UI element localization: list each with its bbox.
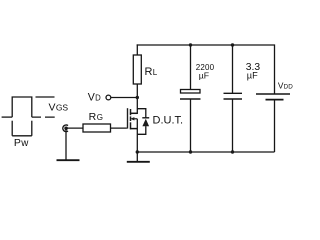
battery VDD negative plate bbox=[266, 99, 284, 101]
junction dot at input terminal bbox=[64, 127, 68, 131]
junction dot bottom rail C2 bbox=[231, 150, 234, 153]
capacitor C1 2200uF positive plate bbox=[181, 90, 201, 94]
wire source to ground bbox=[136, 152, 138, 161]
transistor channel segment body bbox=[130, 116, 132, 121]
body diode branch wires bbox=[137, 109, 146, 135]
transistor channel segment source bbox=[130, 122, 132, 129]
pulse waveform baseline bbox=[2, 116, 13, 118]
wire RG to gate bbox=[111, 127, 127, 129]
wire input terminal to ground bbox=[65, 128, 67, 159]
pulse width bracket bbox=[12, 135, 32, 137]
svg-text:µF: µF bbox=[247, 70, 258, 80]
svg-text:VDD: VDD bbox=[278, 80, 293, 90]
bottom rail wire bbox=[137, 151, 274, 153]
svg-text:VGS: VGS bbox=[49, 101, 69, 113]
body diode cathode bar bbox=[142, 117, 149, 119]
wire top rail to C1 bbox=[190, 45, 192, 90]
junction dot VD tap bbox=[136, 96, 139, 99]
wire C2 to bottom rail bbox=[232, 99, 234, 152]
transistor body arrow bbox=[130, 117, 134, 120]
svg-text:RG: RG bbox=[89, 111, 103, 123]
resistor RG bbox=[83, 124, 111, 132]
wire source column bbox=[136, 119, 138, 152]
transistor source contact bar bbox=[130, 128, 137, 130]
battery VDD positive plate bbox=[256, 93, 290, 95]
svg-text:VD: VD bbox=[88, 91, 101, 103]
transistor channel segment drain bbox=[130, 109, 132, 115]
wire battery to bottom rail bbox=[274, 100, 276, 152]
capacitor C2 3.3uF top plate bbox=[224, 92, 243, 94]
svg-text:µF: µF bbox=[199, 70, 209, 80]
svg-text:RL: RL bbox=[145, 66, 158, 78]
top rail wire bbox=[137, 45, 275, 94]
wire RL to drain bbox=[136, 84, 138, 114]
terminal VD circle bbox=[106, 95, 111, 100]
resistor RL bbox=[133, 55, 141, 84]
pulse width dashed drop line right bbox=[31, 121, 33, 136]
wire input terminal to RG bbox=[66, 127, 83, 129]
wire top rail to C2 bbox=[232, 45, 234, 93]
junction dot bottom rail C1 bbox=[189, 150, 192, 153]
junction dot bottom rail source bbox=[136, 150, 139, 153]
pulse width dashed drop line left bbox=[11, 121, 13, 136]
transistor D.U.T. gate line bbox=[127, 108, 128, 128]
junction dot top rail C1 bbox=[189, 43, 192, 46]
body diode triangle bbox=[142, 119, 149, 127]
ground (input side) bbox=[57, 159, 80, 161]
pulse waveform square pulse bbox=[12, 97, 32, 117]
transistor body bar bbox=[134, 118, 137, 120]
capacitor C1 2200uF negative plate bbox=[180, 98, 201, 100]
svg-text:Pw: Pw bbox=[14, 137, 29, 149]
wire C1 to bottom rail bbox=[190, 99, 192, 152]
ground (source side) bbox=[127, 161, 150, 163]
wire top rail to RL bbox=[136, 44, 138, 55]
input terminal circle bbox=[63, 125, 68, 132]
transistor drain contact bar bbox=[130, 112, 137, 114]
capacitor C2 3.3uF bottom plate bbox=[224, 98, 243, 100]
VGS baseline dashed line bbox=[32, 116, 55, 118]
svg-text:D.U.T.: D.U.T. bbox=[153, 115, 184, 127]
VGS level dashed line (top) bbox=[36, 96, 55, 98]
junction dot top rail C2 bbox=[231, 43, 234, 46]
wire VD terminal to drain node bbox=[111, 97, 137, 99]
